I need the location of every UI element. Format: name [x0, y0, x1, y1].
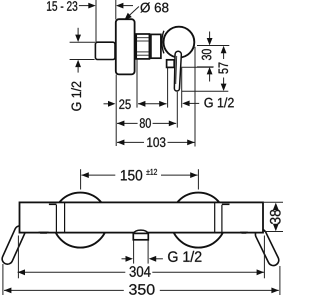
- body joint lines: [55, 205, 57, 233]
- dimension 350: [4, 289, 124, 291]
- handle knob (side view): [164, 27, 195, 58]
- mixer body bar: [20, 202, 264, 232]
- outlet ext lines: [133, 240, 135, 263]
- left escutcheon circle: [53, 193, 108, 248]
- wall plate face extension line: [115, 0, 117, 20]
- pipe G1/2 label (rotated): [71, 82, 81, 111]
- handle rear flange arc: [162, 31, 164, 54]
- joint tick marks: [49, 204, 57, 206]
- right escutcheon circle: [171, 193, 226, 248]
- outlet G1/2 label (top view): [182, 101, 189, 107]
- wall line: [95, 0, 97, 42]
- label diameter 68: [140, 2, 168, 12]
- pipe G1/2 top arrow: [77, 28, 79, 36]
- left S-union: [0, 224, 27, 266]
- dimension G1/2 bottom: [122, 258, 127, 260]
- dimension 15-23 left arrow: [79, 5, 89, 7]
- dimension 15-23 text: [47, 1, 77, 11]
- dimension 57 (vertical): [221, 46, 227, 53]
- dimension 103: [117, 141, 144, 143]
- extension lines top view: [115, 75, 117, 146]
- pipe G1/2 dimension ext lines: [70, 41, 95, 43]
- dimension 30 (vertical): [209, 32, 211, 39]
- 150 ext lines: [80, 169, 82, 189]
- unlabeled span arrows: [138, 103, 167, 105]
- lever handle: [174, 51, 182, 91]
- valve body connector: [151, 34, 161, 58]
- outlet dome: [134, 230, 148, 233]
- outlet nipple (side view): [167, 60, 175, 68]
- dimension 38 (vertical right): [264, 201, 283, 203]
- dimension 15-23 right arrow: [116, 3, 123, 9]
- dimension 150 +-12: [81, 174, 115, 176]
- dimension 304: [18, 271, 126, 273]
- supply pipe (side view): [95, 42, 115, 59]
- right side ext lines: [197, 45, 229, 47]
- 30 ext line bottom (under valve outlet): [174, 66, 213, 68]
- right S-union: [254, 227, 281, 267]
- leader line for diameter 68: [126, 7, 139, 19]
- dimension 25: [104, 103, 110, 105]
- pipe G1/2 bottom arrow: [75, 60, 81, 67]
- dimension 80: [117, 122, 138, 124]
- under-body screw bumps: [38, 232, 48, 234]
- outlet nut band: [133, 233, 148, 239]
- knurled union nut: [136, 34, 149, 59]
- wall escutcheon plate (side view): [116, 19, 135, 74]
